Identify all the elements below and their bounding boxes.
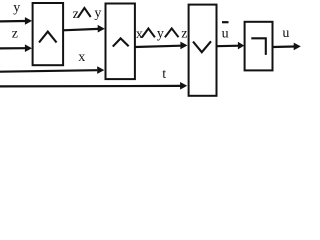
AND block B2 xyxy=(106,4,135,80)
svg-text:t: t xyxy=(162,67,166,82)
OR symbol in B3 xyxy=(194,42,211,52)
NOT symbol in B4 xyxy=(251,38,265,55)
OR block B3 xyxy=(189,5,217,96)
input arrow x xyxy=(0,70,97,72)
svg-text:y: y xyxy=(157,27,164,42)
wire B3 to B4 xyxy=(217,45,240,48)
AND symbol in B2 xyxy=(114,38,128,45)
input arrow t xyxy=(0,85,181,88)
wire B2 to B3 xyxy=(135,46,181,47)
svg-text:y: y xyxy=(94,6,101,21)
svg-text:u: u xyxy=(222,27,229,42)
svg-text:x: x xyxy=(136,27,143,42)
svg-text:y: y xyxy=(13,0,20,15)
svg-text:z: z xyxy=(73,7,79,22)
svg-text:z: z xyxy=(181,26,187,41)
svg-text:z: z xyxy=(12,26,18,41)
wire B1 to B2 xyxy=(63,29,98,30)
AND block B1 xyxy=(33,3,64,65)
label u-bar overbar xyxy=(222,21,229,23)
output arrow u xyxy=(273,45,295,48)
NOT block B4 xyxy=(245,22,273,71)
input arrow z xyxy=(0,47,25,49)
input arrow y xyxy=(0,20,25,23)
AND symbol in B1 xyxy=(40,32,56,42)
svg-text:u: u xyxy=(282,26,289,41)
svg-text:x: x xyxy=(78,50,85,65)
